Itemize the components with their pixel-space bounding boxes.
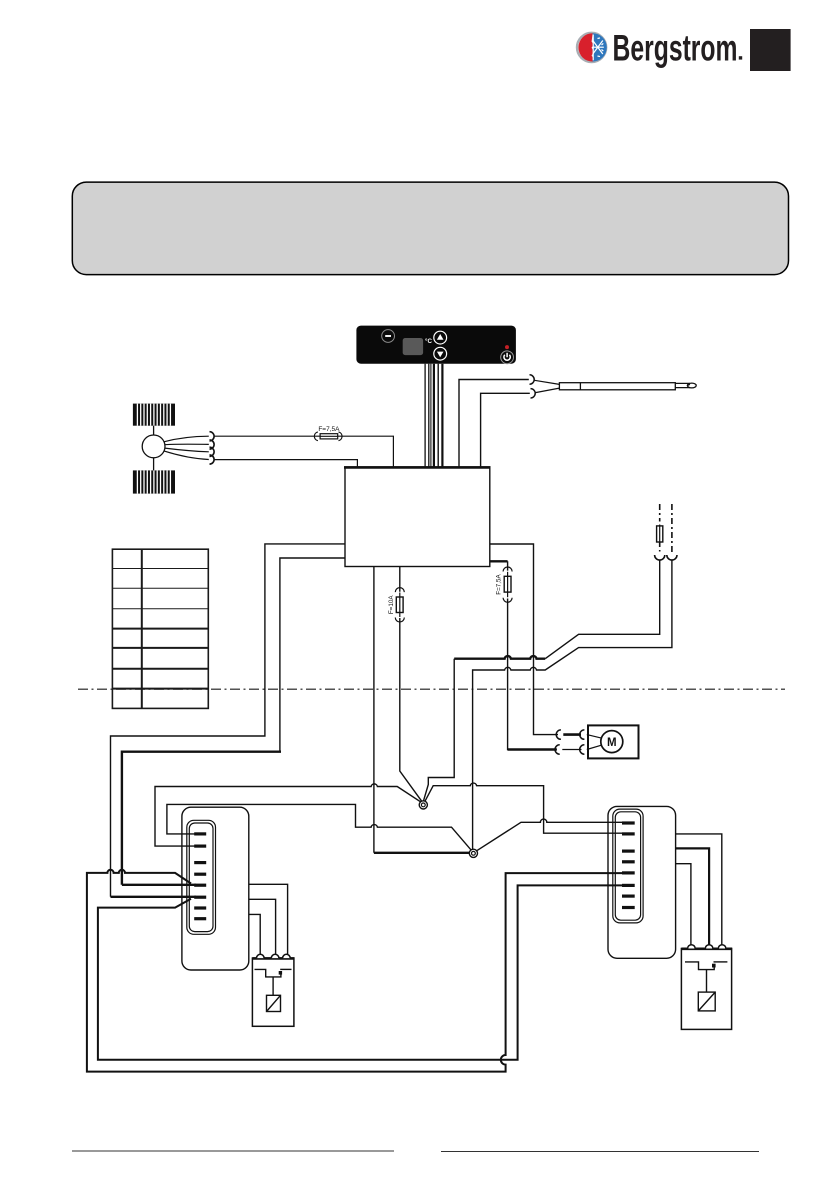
junction B (ring terminal) [469, 849, 477, 857]
wire right connector to relay K2 pin3 [676, 834, 722, 945]
drain motor connector arcs [555, 730, 584, 754]
wire loop left pin5 to right pin5 (outer bottom loop) [87, 870, 622, 1072]
wire control box bottom to junction B (via x374) [373, 567, 375, 853]
wire right connector to relay K2 pin2 (thick) [676, 848, 710, 945]
logo trademark dot [739, 56, 742, 59]
left connector pins (8 bars) [194, 832, 206, 920]
right connector pins (8 bars) [622, 821, 635, 909]
battery feed 2 connector arc [667, 555, 677, 560]
junction A (ring terminal) [419, 801, 427, 809]
blower lead 3 [165, 448, 209, 452]
footer rule left [72, 1150, 394, 1152]
svg-text:F=10A: F=10A [388, 595, 395, 615]
right connector inner housing (double border) [613, 809, 643, 923]
control panel power button [501, 351, 514, 364]
wire left connector to relay K1 pin2 [249, 899, 276, 954]
relay K1 terminal bumps [257, 954, 291, 958]
temperature sensor probe body [559, 383, 675, 390]
motor M1 internal leads [587, 735, 604, 750]
wire junction A to right connector pin2 [424, 783, 622, 833]
blower connector arc 4 [210, 455, 215, 464]
wire left connector pin5 entry (thick) [122, 884, 196, 886]
battery feed 1 connector arc [655, 555, 665, 560]
control panel fan button [382, 330, 395, 343]
drain motor wire lower thin segment [562, 749, 581, 751]
relay K2 thick top edge [681, 947, 732, 950]
wire blower feed through fuse to control box [214, 436, 393, 467]
wire control box through fuse F1 to junction A [400, 567, 424, 804]
relay K2 terminal bumps [688, 945, 726, 949]
fuse F2 7,5A (vertical) [503, 567, 512, 602]
temperature sensor lead taper [535, 380, 560, 392]
wire control box right to fuse F2 (thick stub) [490, 560, 508, 562]
wire left connector pin5 thick run [122, 752, 281, 885]
blower connector arc 3 [210, 447, 215, 456]
left connector inner housing (double border) [187, 820, 216, 934]
drain motor wire lower thick segment [508, 748, 557, 750]
blower lead 2 [165, 443, 209, 446]
blower wheel bottom (striped) [133, 470, 175, 493]
relay K1 coil [267, 995, 281, 1011]
wire battery feed 1 main run (thick, jumps over motor wires) [454, 656, 545, 659]
left connector assembly outer housing [182, 807, 249, 970]
battery feed 1 dashed below fuse [659, 542, 661, 553]
blower connector arc 1 [210, 432, 215, 441]
temperature sensor wire 1 [459, 380, 529, 468]
temperature sensor connector arc 1 [530, 375, 535, 384]
blower connector arc 2 [210, 440, 215, 449]
wire left connector pin1 to junction B [167, 804, 474, 852]
battery feed 2 dashed lead-in [671, 504, 673, 553]
wire junction B feed (thick horizontal) [374, 852, 474, 854]
temperature sensor wire 2 [481, 393, 530, 467]
control panel LCD display [403, 338, 423, 355]
black corner square [750, 29, 791, 71]
wire right connector to relay K2 pin1 [676, 864, 691, 945]
wire battery feed 1 to junction A [545, 560, 660, 659]
wire blower ground to control box [214, 460, 357, 467]
relay K1 box [252, 958, 294, 1026]
drain motor wire upper thick segment [563, 733, 581, 736]
right connector assembly outer housing [608, 806, 676, 958]
control unit box [345, 467, 490, 567]
wire battery feed 1 drop to junction A [423, 659, 454, 802]
wire junction B to right connector pin1 [474, 819, 623, 853]
wire control box to left connector pin6 (upper left wire) [111, 544, 346, 897]
relay K2 contact symbol [685, 962, 727, 992]
wire left connector to relay K1 pin1 [249, 914, 260, 954]
control panel red LED [505, 345, 509, 349]
motor M1 box [588, 725, 639, 758]
blower lead 1 [164, 436, 209, 442]
battery fuse (unlabeled) [657, 525, 663, 544]
blower wheel top (striped) [133, 404, 175, 426]
motor M1 circle [601, 731, 623, 753]
wire left connector to relay K1 pin3 [249, 884, 288, 954]
control panel body [356, 326, 516, 364]
wire battery feed 2 to junction B [473, 560, 672, 853]
svg-text:F=7,5A: F=7,5A [496, 573, 503, 594]
wire control box to left connector pin5 (lower left wire) [280, 558, 345, 751]
fuse F1 10A (vertical) [395, 588, 404, 622]
battery feed 1 dashed lead-in [659, 504, 661, 522]
temperature sensor connector arc 2 [531, 389, 536, 398]
relay K1 thick top edge [252, 957, 294, 960]
svg-text:°C: °C [425, 338, 432, 345]
dash-dot cab/machine divider line [78, 688, 785, 690]
blower motor hub [142, 435, 165, 458]
relay K2 coil [698, 992, 715, 1011]
wire loop left pin6 to right pin6 (inner bottom loop) [98, 885, 622, 1059]
note box (gray rounded rectangle) [72, 182, 788, 275]
control panel down button [434, 347, 447, 360]
relay K1 contact symbol [255, 969, 292, 995]
control panel up button [434, 331, 447, 344]
svg-text:M: M [607, 737, 617, 749]
svg-text:Bergstrom: Bergstrom [613, 28, 738, 69]
wire fuse F2 to evaporator drain motor (lower) [508, 561, 557, 749]
footer rule right [441, 1151, 759, 1153]
legend table [112, 549, 208, 708]
wire control box right to drain motor (upper) [490, 544, 558, 735]
display panel wire bundle [425, 364, 442, 467]
fuse F3 7,5A (blower, horizontal) [314, 432, 342, 441]
logo mark Bergstrom circle [577, 33, 607, 62]
blower shaft [153, 426, 155, 471]
wire left connector pin6 entry (thick) [111, 896, 197, 898]
svg-text:F=7,5A: F=7,5A [318, 426, 340, 433]
control unit box thick top edge [344, 466, 491, 469]
relay K2 box [681, 949, 731, 1030]
wire left connector pin2 to junction A [155, 784, 424, 846]
temperature sensor probe tip [675, 383, 696, 388]
blower lead 4 [164, 451, 209, 460]
